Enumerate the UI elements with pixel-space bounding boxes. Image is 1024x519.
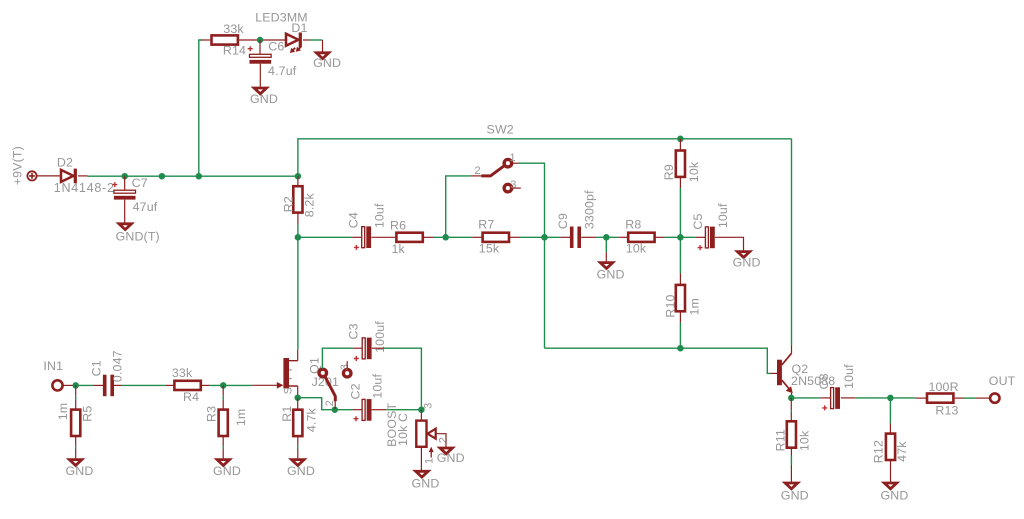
svg-text:8.2k: 8.2k xyxy=(303,193,317,218)
diode D2 xyxy=(54,156,115,195)
junction Q2 emitter node xyxy=(788,395,795,402)
wire C5 to GND xyxy=(715,237,744,250)
svg-text:10k C: 10k C xyxy=(396,413,410,446)
wire OUT pad lead xyxy=(975,397,989,399)
svg-text:C8: C8 xyxy=(817,373,831,389)
svg-text:10uf: 10uf xyxy=(371,374,385,399)
svg-text:3: 3 xyxy=(339,364,351,370)
wire R12 top lead xyxy=(889,424,891,434)
svg-text:GND: GND xyxy=(597,268,625,282)
svg-text:GND: GND xyxy=(781,489,809,503)
svg-text:GND: GND xyxy=(287,464,315,478)
resistor R2 xyxy=(282,186,317,217)
wire C1 right lead xyxy=(113,384,122,386)
wire R13 right lead xyxy=(955,397,964,399)
svg-text:10uf: 10uf xyxy=(372,203,386,228)
wire R13 to OUT xyxy=(964,397,975,399)
switch J2 lever xyxy=(325,376,335,401)
wire R11 top lead2 xyxy=(790,413,792,422)
wire node to C2 xyxy=(335,409,353,411)
svg-text:3: 3 xyxy=(423,403,435,409)
junction rail joint xyxy=(159,173,166,180)
wire R11 bottom mid xyxy=(790,456,792,466)
resistor R8 xyxy=(625,217,654,255)
switch SW2 pin 3 xyxy=(504,184,512,192)
wire R3 top lead2 xyxy=(222,400,224,410)
wire R2 bottom lead xyxy=(297,212,299,225)
junction J2 pin2 node xyxy=(332,406,339,413)
wire R4 left lead xyxy=(166,384,175,386)
svg-text:GND: GND xyxy=(412,477,440,491)
svg-text:1N4148-2: 1N4148-2 xyxy=(54,181,115,195)
wire base line xyxy=(545,348,771,373)
wire R12 bottom lead xyxy=(890,460,892,482)
wire Q2 collector lead xyxy=(791,346,793,354)
wire C6 top lead xyxy=(259,40,261,54)
switch J2 pin 1 xyxy=(319,369,327,377)
capacitor C1 xyxy=(89,350,124,396)
switch SW2 lever xyxy=(481,165,505,176)
svg-text:GND(T): GND(T) xyxy=(116,229,160,243)
svg-text:1: 1 xyxy=(509,152,515,164)
wire R10 bottom lead xyxy=(679,311,681,322)
wire pot wiper to GND xyxy=(436,434,446,447)
wire J2 pin1 up xyxy=(322,348,352,368)
wire SW2 rail right drop xyxy=(791,139,793,346)
resistor R6 xyxy=(390,219,423,257)
wire C2 right lead xyxy=(372,409,387,411)
resistor R14 xyxy=(212,22,247,58)
resistor R13 xyxy=(927,380,959,417)
wire C3 right lead xyxy=(372,347,384,349)
wire C8 to R12 node xyxy=(855,397,890,399)
wire R5 mid xyxy=(75,396,77,400)
wire C8 left lead xyxy=(820,397,831,399)
wire R14 to D1 anode xyxy=(239,39,286,41)
wire R2 top lead xyxy=(297,176,299,187)
wire R5 gnd lead xyxy=(75,449,77,458)
capacitor C7 xyxy=(112,176,157,214)
wire R3 bottom mid xyxy=(222,446,224,449)
svg-text:C2: C2 xyxy=(349,383,363,399)
wire Q1 source lead xyxy=(297,386,299,398)
ground GND below R5 xyxy=(66,460,94,479)
ground GND below R1 xyxy=(287,460,315,479)
svg-text:R14: R14 xyxy=(223,43,246,57)
wire C8 right lead xyxy=(841,397,855,399)
resistor R3 xyxy=(205,406,248,436)
ground GND(T) xyxy=(116,224,160,244)
wire C4 to R6 xyxy=(371,236,395,238)
wire C3 to node 3 xyxy=(384,348,422,410)
wire C1 to R4 xyxy=(122,384,166,386)
svg-text:1m: 1m xyxy=(56,403,70,421)
junction R14 branch xyxy=(196,173,203,180)
wire R6 right lead xyxy=(424,236,433,238)
ground GND below R3 xyxy=(213,460,241,479)
wire R1 gnd lead xyxy=(297,449,299,458)
svg-text:1: 1 xyxy=(424,458,436,464)
pad OUT xyxy=(990,393,999,402)
svg-text:R6: R6 xyxy=(390,219,406,233)
capacitor C3 xyxy=(346,321,387,361)
svg-text:47uf: 47uf xyxy=(133,200,158,214)
resistor R9 xyxy=(662,151,701,183)
ground GND at C5 xyxy=(733,252,761,270)
svg-text:10uf: 10uf xyxy=(716,203,730,228)
resistor R1 xyxy=(280,406,319,436)
wire gnd tap lead xyxy=(605,252,607,261)
wire Q1 drain lead xyxy=(297,349,299,360)
LED D1 xyxy=(255,11,308,54)
junction C9 ground tap xyxy=(603,234,610,241)
wire C2 to node 3 xyxy=(386,409,421,411)
svg-text:IN1: IN1 xyxy=(43,359,63,373)
svg-text:GND: GND xyxy=(213,464,241,478)
wire R1 top lead xyxy=(297,398,299,410)
svg-text:2: 2 xyxy=(474,165,480,177)
wire IN1 to junction xyxy=(64,384,73,386)
wire C9 left lead xyxy=(560,236,570,238)
wire +9V rail to R14 row xyxy=(199,40,202,176)
wire C4 left lead xyxy=(352,236,362,238)
resistor R4 xyxy=(172,366,201,404)
wire R4 right lead xyxy=(201,384,210,386)
svg-text:47k: 47k xyxy=(895,441,909,462)
resistor R11 xyxy=(774,421,812,451)
svg-text:1m: 1m xyxy=(234,409,248,427)
wire R6 to R7 xyxy=(433,236,472,238)
svg-text:33k: 33k xyxy=(223,22,244,36)
junction switch common branch xyxy=(541,234,548,241)
svg-text:C4: C4 xyxy=(346,212,360,228)
svg-text:10k: 10k xyxy=(626,242,647,256)
wire R10 top lead xyxy=(679,274,681,286)
wire R3 bottom lead xyxy=(222,436,224,446)
wire R4 to gate xyxy=(210,384,253,386)
svg-text:15k: 15k xyxy=(479,242,500,256)
svg-text:D2: D2 xyxy=(57,156,73,170)
wire D1 to GND corner xyxy=(309,39,323,41)
wire row to R10 xyxy=(679,237,681,273)
wire Q1 drain to row xyxy=(297,237,299,349)
junction switch pin2 branch xyxy=(442,234,449,241)
svg-text:4.7uf: 4.7uf xyxy=(268,64,297,78)
wire R7 left lead xyxy=(472,236,482,238)
switch SW2 pin 1 xyxy=(504,159,512,167)
svg-text:C5: C5 xyxy=(691,213,705,229)
wire lead R14 pin 1 xyxy=(201,39,210,41)
svg-text:4.7k: 4.7k xyxy=(305,407,319,432)
wire R9 bottom lead xyxy=(679,177,681,188)
wire C2 left lead xyxy=(353,409,363,411)
wire common vertical xyxy=(519,163,545,348)
svg-text:C7: C7 xyxy=(132,176,148,190)
wire R11 gnd lead xyxy=(790,465,792,482)
capacitor C5 xyxy=(691,203,730,250)
svg-text:33k: 33k xyxy=(172,366,193,380)
svg-text:1k: 1k xyxy=(392,242,406,256)
wire R8 to C5 xyxy=(664,236,695,238)
svg-text:GND: GND xyxy=(66,464,94,478)
wire R7 right lead xyxy=(509,236,519,238)
ground GND below R11 xyxy=(781,483,809,503)
svg-text:R1: R1 xyxy=(280,406,294,422)
wire R12 top mid xyxy=(889,398,891,424)
svg-text:R8: R8 xyxy=(625,217,641,231)
svg-text:0.047: 0.047 xyxy=(110,350,124,382)
svg-text:R2: R2 xyxy=(282,196,296,212)
svg-text:R3: R3 xyxy=(205,406,219,422)
wire D2 cathode lead xyxy=(78,175,88,177)
wire D1 cathode xyxy=(303,39,309,41)
junction R12 tap xyxy=(887,395,894,402)
wire J2 pin2 stub xyxy=(334,401,336,410)
svg-text:3: 3 xyxy=(510,179,516,191)
wire +9V rail xyxy=(88,175,298,177)
svg-text:GND: GND xyxy=(437,451,465,465)
svg-text:LED3MM: LED3MM xyxy=(255,11,308,25)
wire R11 bottom lead xyxy=(790,448,792,456)
svg-text:C6: C6 xyxy=(268,40,284,54)
svg-text:1m: 1m xyxy=(688,298,702,316)
wire C3 left lead xyxy=(353,347,363,349)
junction R2 top xyxy=(295,173,302,180)
svg-text:C3: C3 xyxy=(346,323,360,339)
wire C7 to GND(T) xyxy=(124,200,126,223)
capacitor C4 xyxy=(346,203,386,250)
wire pin2 branch vertical xyxy=(446,176,471,237)
junction R5 tap xyxy=(72,382,79,389)
svg-text:+9V(T): +9V(T) xyxy=(10,146,24,185)
wire R11 top mid xyxy=(790,410,792,413)
wire R11 top lead xyxy=(790,398,792,410)
wire C9 to R8 xyxy=(596,236,618,238)
svg-text:SW2: SW2 xyxy=(487,122,514,136)
transistor Q1 xyxy=(277,357,339,394)
wire gnd tap drop xyxy=(605,237,607,252)
ground GND mid row xyxy=(597,263,625,282)
capacitor C2 xyxy=(349,374,385,422)
svg-text:R9: R9 xyxy=(662,164,676,180)
wire Q2 base lead xyxy=(771,372,778,374)
junction C6 top xyxy=(257,37,264,44)
wire R9 to row xyxy=(679,188,681,237)
pad IN1 xyxy=(52,380,62,390)
svg-text:R12: R12 xyxy=(871,440,885,463)
wire R5 top lead2 xyxy=(75,400,77,410)
ground GND below R12 xyxy=(881,483,909,503)
svg-text:GND: GND xyxy=(250,92,278,106)
wire down to D1 ground xyxy=(322,40,324,52)
wire junction to C1 xyxy=(73,384,94,386)
wire pot bottom to GND xyxy=(420,447,422,470)
svg-text:OUT: OUT xyxy=(989,374,1016,388)
svg-text:R5: R5 xyxy=(80,406,94,422)
transistor Q2 xyxy=(777,353,835,393)
svg-text:10k: 10k xyxy=(797,430,811,451)
junction R9/R10 tap xyxy=(677,234,684,241)
svg-text:R4: R4 xyxy=(183,390,199,404)
wire emitter node to C8 xyxy=(795,397,821,399)
wire J2 pin 3 stub xyxy=(346,361,348,369)
wire R2 to signal row xyxy=(297,225,299,238)
ground GND at wiper xyxy=(437,448,465,465)
capacitor C9 xyxy=(556,190,596,248)
svg-text:C9: C9 xyxy=(556,213,570,229)
wire R3 gnd lead xyxy=(222,449,224,458)
junction R3 tap xyxy=(220,382,227,389)
svg-text:GND: GND xyxy=(313,56,341,70)
wire R3 mid xyxy=(222,396,224,400)
wire R5 bottom mid xyxy=(75,446,77,449)
resistor R5 xyxy=(56,403,95,436)
wire source to J2 area xyxy=(298,398,332,410)
junction R10 bottom xyxy=(677,345,684,352)
junction node C4 left xyxy=(295,234,302,241)
capacitor C6 xyxy=(248,40,297,78)
wire R7 to C9 xyxy=(519,236,560,238)
wire node to C4 xyxy=(298,236,352,238)
svg-text:R7: R7 xyxy=(478,217,494,231)
svg-text:GND: GND xyxy=(881,489,909,503)
wire R3 top lead xyxy=(222,385,224,395)
capacitor C8 xyxy=(817,364,856,411)
wire switch pin 1 stub xyxy=(513,162,519,164)
wire R1 bottom mid xyxy=(297,446,299,449)
svg-text:GND: GND xyxy=(733,256,761,270)
wire R8 right lead xyxy=(655,236,665,238)
svg-text:10k: 10k xyxy=(687,161,701,182)
resistor R12 xyxy=(871,434,909,464)
svg-text:C1: C1 xyxy=(89,360,103,376)
wire R1 bottom lead xyxy=(297,436,299,446)
svg-text:R11: R11 xyxy=(774,429,788,451)
wire R5 bottom lead xyxy=(75,436,77,446)
ground GND below C6 xyxy=(250,88,278,106)
svg-text:3300pf: 3300pf xyxy=(582,190,596,229)
wire R10 to base line xyxy=(679,323,681,349)
junction node 3 xyxy=(418,406,425,413)
wire R13 left lead xyxy=(916,397,926,399)
svg-text:2: 2 xyxy=(324,400,336,406)
resistor R7 xyxy=(478,217,509,255)
wire C7 top lead xyxy=(124,176,126,190)
resistor R10 xyxy=(664,285,702,318)
power symbol +9V(T) xyxy=(27,171,36,180)
wire R9 top lead xyxy=(679,139,681,151)
junction R9 top xyxy=(677,136,684,143)
svg-text:R13: R13 xyxy=(935,403,958,417)
svg-text:2: 2 xyxy=(437,437,449,443)
wire C1 left lead xyxy=(94,384,104,386)
wire switch pin 3 stub xyxy=(513,187,521,189)
svg-text:S: S xyxy=(282,387,294,395)
ground GND below pot xyxy=(412,471,440,490)
svg-text:10uf: 10uf xyxy=(842,364,856,389)
wire C6 to GND xyxy=(259,64,261,87)
wire +9V to D2 anode xyxy=(37,175,61,177)
wire R5 top lead xyxy=(75,385,77,395)
wire C5 left lead xyxy=(696,236,706,238)
wire node to R13 xyxy=(890,397,915,399)
wire Q1 gate lead xyxy=(252,384,277,386)
wire R8 left lead xyxy=(618,236,628,238)
wire Q2 emitter lead xyxy=(791,393,793,398)
junction Q1 source xyxy=(294,394,301,401)
wire C9 right lead xyxy=(581,236,596,238)
junction C7 tap xyxy=(121,173,128,180)
wire SW2 rail xyxy=(298,139,792,176)
switch J2 pin 3 xyxy=(343,369,351,377)
potentiometer BOOST xyxy=(385,402,449,464)
wire switch pin 2 stub xyxy=(471,175,482,177)
svg-text:R10: R10 xyxy=(664,294,678,317)
ground GND below D1 xyxy=(313,53,341,70)
svg-text:100R: 100R xyxy=(928,380,958,394)
wire pot top lead xyxy=(420,410,422,421)
